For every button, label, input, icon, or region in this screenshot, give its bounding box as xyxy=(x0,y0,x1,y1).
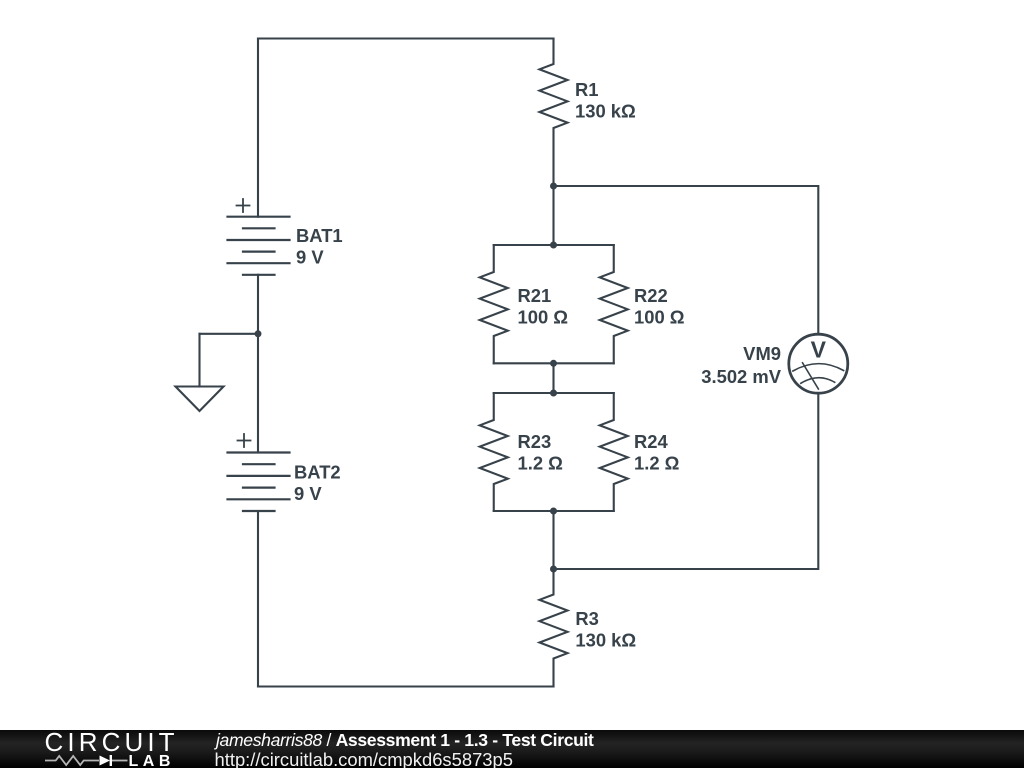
wire ground branch horizontal xyxy=(200,333,259,335)
resistor R23 xyxy=(480,393,508,511)
wire node A to voltmeter top xyxy=(554,186,819,334)
svg-text:R22: R22 xyxy=(634,285,668,306)
voltmeter VM9 body xyxy=(789,334,848,393)
junction node dot A (R1 bottom) xyxy=(550,183,557,190)
junction node dot box1 bottom xyxy=(550,360,557,367)
svg-text:1.2 Ω: 1.2 Ω xyxy=(518,453,563,474)
footer bar xyxy=(0,730,1024,768)
svg-text:3.502 mV: 3.502 mV xyxy=(701,366,781,387)
wire box2 top rail xyxy=(494,392,614,394)
wire box2 bottom rail xyxy=(494,510,614,512)
junction node dot B (R3 top) xyxy=(550,566,557,573)
svg-text:100 Ω: 100 Ω xyxy=(518,307,569,328)
junction node dot box1 top xyxy=(550,242,557,249)
resistor R22 xyxy=(600,245,628,363)
svg-text:BAT1: BAT1 xyxy=(296,225,343,246)
svg-text:V: V xyxy=(811,336,827,362)
footer credit line xyxy=(216,730,594,751)
svg-text:130 kΩ: 130 kΩ xyxy=(575,630,636,651)
wire box1 top rail xyxy=(494,244,614,246)
resistor R21 xyxy=(480,245,508,363)
junction node dot box2 top xyxy=(550,390,557,397)
svg-text:R3: R3 xyxy=(575,608,599,629)
BAT2 plus sign xyxy=(238,434,251,447)
junction node dot box2 bottom xyxy=(550,508,557,515)
wire ground branch vertical xyxy=(198,334,200,387)
wire top horizontal xyxy=(258,37,554,39)
resistor R1 xyxy=(540,39,568,187)
logo resistor-diode line xyxy=(45,756,128,765)
battery BAT1 xyxy=(228,217,290,275)
svg-text:VM9: VM9 xyxy=(743,343,781,364)
wire node A to box1 xyxy=(552,186,554,245)
CircuitLab logo wordmark xyxy=(0,725,200,768)
voltmeter VM9 scale arcs xyxy=(793,363,844,389)
svg-text:R21: R21 xyxy=(518,285,552,306)
wire bottom horizontal xyxy=(258,685,554,687)
svg-text:LAB: LAB xyxy=(129,753,175,768)
resistor R3 xyxy=(540,569,568,687)
wire BAT1 to ground node xyxy=(257,275,259,334)
wire box1 bottom rail xyxy=(494,362,614,364)
logo diode symbol xyxy=(100,755,111,765)
svg-text:100 Ω: 100 Ω xyxy=(634,307,685,328)
wire node B to voltmeter bottom xyxy=(554,393,819,569)
svg-text:BAT2: BAT2 xyxy=(294,462,341,483)
svg-text:130 kΩ: 130 kΩ xyxy=(575,101,636,122)
svg-text:R24: R24 xyxy=(634,431,669,452)
ground symbol xyxy=(176,387,224,412)
BAT1 plus sign xyxy=(237,199,250,212)
battery BAT2 xyxy=(228,453,290,512)
svg-text:R1: R1 xyxy=(575,79,599,100)
wire box2 to node B xyxy=(552,511,554,569)
wire box1 to box2 xyxy=(552,363,554,393)
svg-text:9 V: 9 V xyxy=(294,483,322,504)
junction node dot (ground node) xyxy=(255,330,262,337)
wire node to BAT2 xyxy=(257,334,259,453)
footer url line xyxy=(215,749,514,768)
voltmeter VM9 needle xyxy=(803,363,819,389)
wire BAT2 to bottom xyxy=(257,511,259,687)
resistor R24 xyxy=(600,393,628,511)
svg-text:9 V: 9 V xyxy=(296,247,324,268)
svg-text:R23: R23 xyxy=(518,431,552,452)
svg-text:1.2 Ω: 1.2 Ω xyxy=(634,453,679,474)
wire left vertical to BAT1 xyxy=(257,39,259,217)
